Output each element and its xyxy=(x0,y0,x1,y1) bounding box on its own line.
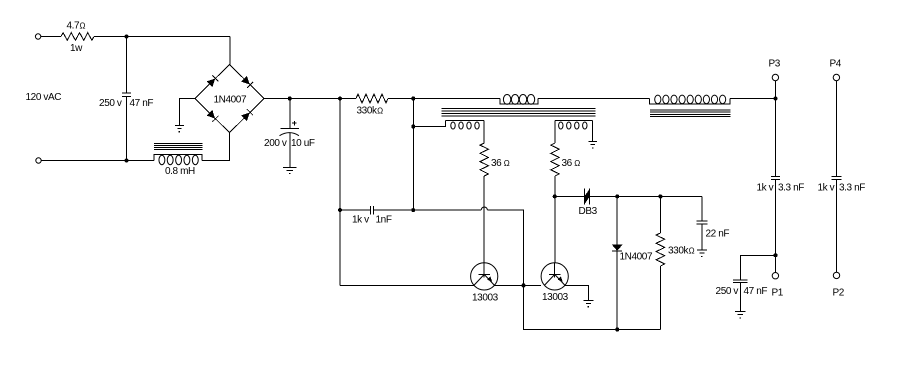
label 1kv C6 xyxy=(818,183,835,194)
wire xyxy=(659,196,661,233)
svg-text:22 nF: 22 nF xyxy=(706,229,730,240)
wire xyxy=(701,196,703,221)
svg-text:10 uF: 10 uF xyxy=(291,138,315,149)
svg-text:1N4007: 1N4007 xyxy=(620,252,653,263)
junction xyxy=(288,97,292,101)
wire xyxy=(126,37,128,94)
label 1kv C5 xyxy=(757,183,774,194)
diode D5 1N4007 xyxy=(612,245,622,252)
label 47nF C7 xyxy=(744,286,768,297)
wire xyxy=(701,224,703,250)
wire xyxy=(41,36,61,38)
label 120 vAC xyxy=(26,92,62,103)
terminal P1 xyxy=(772,273,778,279)
wire xyxy=(483,121,485,144)
capacitor C4 22nF xyxy=(697,221,708,224)
label 0.8 mH xyxy=(165,166,195,177)
transformer T1 core xyxy=(442,109,596,116)
label + polarity xyxy=(292,121,297,126)
svg-text:DB3: DB3 xyxy=(579,206,598,217)
svg-text:330kΩ: 330kΩ xyxy=(357,106,384,117)
label 4.7 ohm xyxy=(67,21,86,32)
capacitor C1 47nF 250v xyxy=(122,93,131,96)
svg-text:3.3 nF: 3.3 nF xyxy=(839,183,865,194)
inductor L2 output choke xyxy=(650,95,730,104)
wire xyxy=(413,121,445,127)
label 22 nF xyxy=(706,229,730,240)
svg-text:P4: P4 xyxy=(830,59,842,70)
transformer T1 secondary A xyxy=(446,121,485,130)
wire xyxy=(835,81,837,177)
label P4 xyxy=(830,59,842,70)
transistor Q2 13003 xyxy=(541,263,568,290)
transistor Q1 13003 xyxy=(471,263,498,290)
capacitor C6 3.3nF 1kv xyxy=(832,177,842,180)
capacitor C3 1nF 1kv xyxy=(371,206,374,215)
bridge rectifier frame xyxy=(195,65,264,133)
junction xyxy=(338,97,342,101)
ground xyxy=(735,312,745,319)
svg-text:13003: 13003 xyxy=(472,293,499,304)
junction xyxy=(658,194,662,198)
diode bridge bottom-left xyxy=(207,111,218,122)
resistor R3 36 ohm xyxy=(480,143,488,176)
capacitor C5 3.3nF 1kv xyxy=(771,177,780,180)
svg-text:250 v: 250 v xyxy=(716,286,739,297)
resistor R2 330k xyxy=(356,94,388,103)
junction xyxy=(615,328,619,332)
inductor L2 core xyxy=(650,110,730,117)
label 1w xyxy=(70,43,83,54)
diac DB3 xyxy=(584,188,589,204)
wire xyxy=(524,285,661,329)
wire xyxy=(94,36,230,38)
junction xyxy=(411,97,415,101)
resistor R4 36 ohm xyxy=(551,143,559,176)
svg-text:P3: P3 xyxy=(769,59,781,70)
wire DC rail xyxy=(730,98,776,100)
label 13003 Q1 xyxy=(472,293,499,304)
resistor R5 330k xyxy=(656,233,665,266)
wire xyxy=(592,121,594,142)
wire xyxy=(180,99,195,126)
label 250 v xyxy=(99,98,122,109)
svg-text:0.8 mH: 0.8 mH xyxy=(165,166,195,177)
label 330k ohm xyxy=(357,106,384,117)
wire emitter Q1 xyxy=(495,284,542,286)
capacitor C7 47nF 250v xyxy=(733,280,748,283)
junction xyxy=(125,159,129,163)
terminal AC input bottom xyxy=(36,158,41,163)
junction xyxy=(553,194,557,198)
svg-text:3.3 nF: 3.3 nF xyxy=(778,183,804,194)
wire DC rail xyxy=(264,98,356,100)
junction xyxy=(338,208,342,212)
ground xyxy=(697,250,707,257)
resistor R1 4.7 ohm 1w xyxy=(61,33,94,41)
wire xyxy=(202,133,230,161)
label 250v C7 xyxy=(716,286,739,297)
wire DC rail xyxy=(388,98,500,100)
svg-text:200 v: 200 v xyxy=(264,138,287,149)
wire xyxy=(775,179,777,272)
wire emitter Q2 xyxy=(565,285,588,300)
wire xyxy=(590,195,702,197)
wire xyxy=(554,121,556,144)
wire xyxy=(555,195,585,197)
ground xyxy=(283,167,297,174)
svg-text:1N4007: 1N4007 xyxy=(214,95,247,106)
svg-text:250 v: 250 v xyxy=(99,98,122,109)
wire xyxy=(412,99,414,211)
wire xyxy=(775,81,777,177)
svg-text:47 nF: 47 nF xyxy=(130,98,154,109)
junction xyxy=(411,208,415,212)
label 10 uF xyxy=(291,138,315,149)
terminal P4 xyxy=(833,74,839,80)
wire xyxy=(340,209,371,211)
wire base Q1 xyxy=(340,284,474,286)
inductor L1 core xyxy=(154,143,203,149)
svg-text:36 Ω: 36 Ω xyxy=(491,158,510,169)
wire xyxy=(41,160,154,162)
diode bridge bottom-right xyxy=(242,109,253,120)
label 3.3nF C6 xyxy=(839,183,865,194)
junction xyxy=(615,194,619,198)
svg-text:1nF: 1nF xyxy=(376,215,392,226)
svg-text:47 nF: 47 nF xyxy=(744,286,768,297)
transformer T1 secondary B xyxy=(555,121,593,130)
terminal P3 xyxy=(772,74,778,80)
capacitor C2 10uF 200v xyxy=(280,128,299,135)
junction xyxy=(411,125,415,129)
svg-text:1w: 1w xyxy=(70,43,83,54)
svg-text:1k v: 1k v xyxy=(757,183,774,194)
label 3.3nF C5 xyxy=(778,183,804,194)
svg-text:P1: P1 xyxy=(772,288,784,299)
wire xyxy=(229,37,231,65)
label P2 xyxy=(833,288,845,299)
ground xyxy=(583,301,593,308)
wire xyxy=(616,196,618,244)
svg-text:1k v: 1k v xyxy=(818,183,835,194)
terminal AC input top xyxy=(35,34,40,39)
diode bridge top-right xyxy=(242,76,253,87)
wire xyxy=(339,99,341,286)
svg-text:1k v: 1k v xyxy=(352,215,369,226)
wire xyxy=(616,251,618,329)
svg-text:P2: P2 xyxy=(833,288,845,299)
wire xyxy=(740,255,775,280)
wire xyxy=(289,133,291,168)
terminal P2 xyxy=(833,272,839,278)
svg-text:330kΩ: 330kΩ xyxy=(668,246,695,257)
svg-text:120 vAC: 120 vAC xyxy=(26,92,62,103)
label 1nF xyxy=(376,215,392,226)
wire xyxy=(126,96,128,160)
svg-text:4.7Ω: 4.7Ω xyxy=(67,21,86,32)
label DB3 xyxy=(579,206,598,217)
svg-text:36 Ω: 36 Ω xyxy=(562,158,581,169)
wire xyxy=(374,209,414,211)
ground xyxy=(588,142,597,149)
ground xyxy=(175,125,184,132)
label 13003 Q2 xyxy=(542,292,569,303)
wire xyxy=(739,283,741,312)
label 200 v xyxy=(264,138,287,149)
wire DC rail xyxy=(538,98,650,100)
wire xyxy=(554,176,556,262)
label 330k ohm B xyxy=(668,246,695,257)
label 36 ohm B xyxy=(562,158,581,169)
junction xyxy=(522,283,526,287)
label 1kv xyxy=(352,215,369,226)
label 1N4007 bridge xyxy=(214,95,247,106)
junction xyxy=(774,253,778,257)
transformer T1 primary xyxy=(500,95,538,105)
label P3 xyxy=(769,59,781,70)
junction xyxy=(125,35,129,39)
svg-text:13003: 13003 xyxy=(542,292,569,303)
junction xyxy=(774,97,778,101)
wire xyxy=(835,179,837,272)
wire with hop xyxy=(413,207,523,285)
label 47nF xyxy=(130,98,154,109)
label P1 xyxy=(772,288,784,299)
wire xyxy=(659,266,661,330)
wire xyxy=(483,176,485,262)
inductor L1 0.8 mH xyxy=(154,154,202,164)
wire xyxy=(289,99,291,129)
label 36 ohm A xyxy=(491,158,510,169)
label 1N4007 vertical xyxy=(620,252,653,263)
diode bridge top-left xyxy=(207,75,218,86)
